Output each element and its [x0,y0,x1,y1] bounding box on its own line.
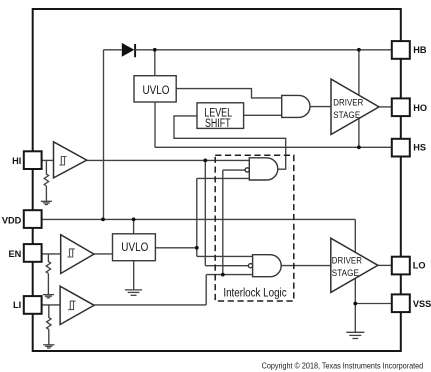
junction dots [153,48,157,52]
resistor R1 on HI [44,161,48,202]
pin LO [392,257,426,275]
svg-text:SHIFT: SHIFT [205,116,231,130]
svg-text:VSS: VSS [413,299,431,309]
wire UVLO top output to AND gate [176,89,282,98]
ground for R2 [43,295,54,298]
wire HI cross-couple to bottom gate bubble [205,160,248,265]
wire LI input to buffer [42,304,60,306]
wire level shift output to AND gate [244,114,282,116]
wire UVLO enable net to both interlock gates [197,178,253,256]
svg-text:STAGE: STAGE [333,110,360,120]
svg-text:LO: LO [413,261,426,271]
wire bottom UVLO output [155,247,196,249]
diode D1 bootstrap [122,43,135,57]
pin HI [12,151,41,169]
AND gate U2 top interlock [245,158,278,180]
wire HI buffer output [87,159,250,161]
buffer HI schmitt [54,142,87,178]
wire AND output to driver stage [310,106,331,108]
ground for R3 [43,345,54,348]
pin VSS [392,294,431,312]
pin HO [392,98,427,116]
svg-text:UVLO: UVLO [121,240,148,254]
wire VDD to diode anode riser [104,50,122,220]
svg-text:DRIVER: DRIVER [332,255,362,265]
svg-text:HO: HO [413,103,427,113]
svg-text:Interlock Logic: Interlock Logic [223,285,286,299]
pin LI [13,296,42,314]
svg-text:STAGE: STAGE [332,268,359,278]
wire LI buffer output to interlock [94,275,253,305]
AND gate U1 (HO path) [282,95,310,117]
svg-text:LI: LI [13,300,21,310]
ground for VSS [346,332,364,338]
ground for R1 [41,201,52,204]
dashed interlock logic box [215,155,294,301]
svg-text:HS: HS [413,143,426,153]
wire HS net [155,102,392,148]
wire EN input to buffer [42,253,61,255]
svg-text:HI: HI [12,156,21,166]
resistor R3 on LI [47,305,51,345]
wire VDD net [42,219,355,332]
buffer LI schmitt [60,286,94,324]
outer border of IC [33,9,401,351]
pin HB [392,41,427,59]
wire bottom gate output to driver stage [281,265,331,267]
AND gate U3 bottom interlock [248,255,281,277]
block UVLO bottom [113,234,156,261]
wire driver output to HO [379,106,392,108]
block LEVEL SHIFT [197,103,244,130]
svg-text:Copyright © 2018, Texas Instru: Copyright © 2018, Texas Instruments Inco… [262,362,424,371]
resistor R2 on EN [46,254,50,295]
ground for bottom UVLO [125,290,142,295]
svg-text:HB: HB [413,45,427,55]
driver stage top [331,79,379,134]
svg-text:EN: EN [9,249,22,259]
wire top interlock gate output to level shift [174,116,286,169]
svg-text:VDD: VDD [2,216,22,226]
svg-text:UVLO: UVLO [143,83,170,97]
pin HS [392,139,426,157]
wire diode cathode to HB net [135,49,392,51]
wire HI input to buffer [42,159,54,161]
wire driver rail HB to HS [358,50,360,148]
driver stage bottom [331,238,378,292]
wire VDD to bottom UVLO [133,219,135,233]
pin EN [9,244,42,262]
wire bottom UVLO to ground [133,261,135,290]
wire LI cross-couple to top gate bubble [223,170,245,275]
pin VDD [2,210,42,228]
buffer EN schmitt [61,235,94,274]
wire EN buffer to bottom UVLO [94,253,112,255]
wire HB node to top UVLO [154,50,156,76]
svg-text:DRIVER: DRIVER [333,97,363,107]
wire VSS net [355,303,392,305]
wire driver output to LO [378,264,392,266]
block UVLO top [134,76,176,102]
